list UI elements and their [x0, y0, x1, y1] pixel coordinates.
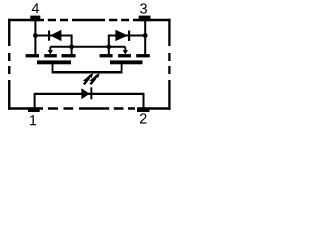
diode D1 triangle (Q1 body diode, pointing left): [50, 30, 61, 41]
light arrow 1 head: [89, 73, 94, 78]
pin 3 pad: [139, 16, 151, 22]
Q1 body arrow head: [48, 50, 53, 54]
wire pin2 riser: [143, 93, 145, 109]
diode D1 cathode bar (Q1 body diode): [48, 31, 50, 41]
Q1 body bar: [44, 54, 57, 57]
wire photovoltaic gate line: [52, 71, 123, 74]
package outline top edge (dash-dot): [8, 19, 171, 21]
pin 2 pad: [137, 107, 150, 112]
package outline left edge (dashed): [8, 19, 10, 110]
wire Q1 right vertical: [71, 35, 73, 56]
pin 3 label: [140, 3, 147, 13]
diode D2 cathode bar (Q2 body diode): [128, 31, 130, 41]
Q1 gate bar: [37, 60, 71, 64]
Q1 body arrow stem: [49, 47, 51, 51]
wire Q2 top (body diode rail): [109, 35, 146, 37]
wire pin4 to Q1 source bar: [34, 21, 36, 55]
Q1 gate drop wire: [52, 64, 54, 72]
LED triangle: [81, 88, 89, 99]
wire pin1 riser: [34, 93, 36, 109]
wire pin3 to Q2 drain bar: [144, 21, 146, 55]
Q2 gate drop wire: [121, 64, 123, 72]
Q2 source bar: [100, 54, 113, 57]
package outline right edge (dashed): [168, 19, 170, 110]
node pin3 junction dot: [143, 33, 148, 38]
Q2 body arrow stem: [124, 47, 126, 51]
light arrow 2 head: [95, 73, 100, 78]
pin 1 pad: [28, 107, 40, 112]
diode D2 triangle (Q2 body diode, pointing right): [115, 30, 128, 41]
package outline bottom edge (dash-dot): [8, 107, 171, 109]
wire LED anode/cathode rail: [35, 93, 144, 95]
Q2 body arrow head: [123, 50, 128, 54]
pin 4 pad: [30, 16, 40, 22]
pin 2 label: [140, 113, 147, 123]
Q1 drain bar: [62, 54, 76, 57]
Q2 gate bar: [110, 60, 143, 64]
wire Q2 left vertical: [108, 35, 110, 56]
node Q2 body junction dot: [106, 44, 111, 49]
wire common body line: [50, 46, 125, 48]
LED cathode bar: [90, 87, 92, 99]
Q2 body bar: [118, 54, 131, 57]
light arrow 1 zigzag: [84, 76, 90, 84]
Q1 source bar: [26, 54, 39, 57]
node pin4/drain junction dot: [33, 33, 38, 38]
pin 4 label: [32, 3, 39, 13]
Q2 drain bar: [136, 54, 150, 57]
node Q1 body junction dot: [69, 44, 74, 49]
wire Q1 top (body diode rail): [34, 35, 71, 37]
pin 1 label: [30, 115, 36, 125]
light arrow 2 zigzag: [90, 76, 96, 84]
